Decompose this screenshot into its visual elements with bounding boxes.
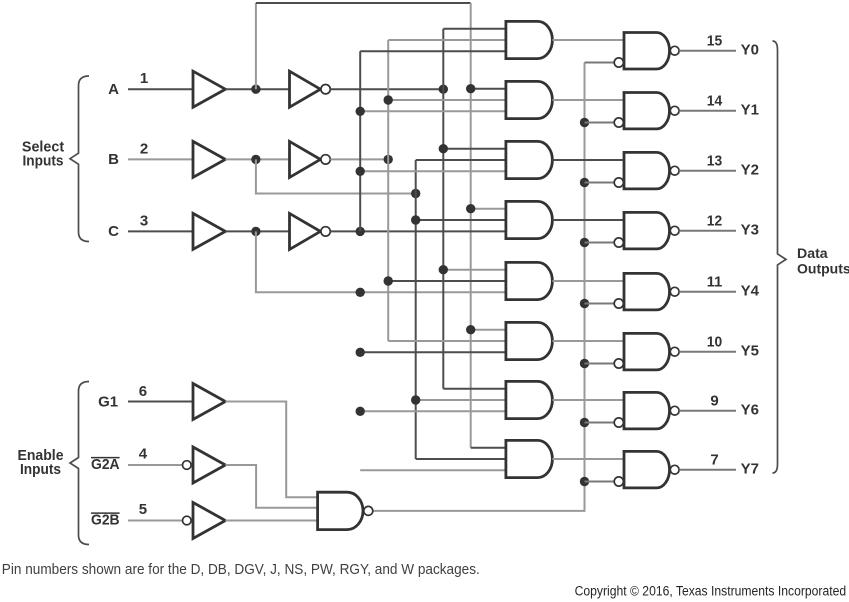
- svg-text:6: 6: [139, 383, 147, 400]
- wire input G1: [128, 401, 193, 403]
- inverter B second stage: [290, 141, 321, 177]
- svg-text:B: B: [108, 151, 119, 168]
- svg-text:7: 7: [710, 452, 718, 469]
- node B true join: [411, 189, 420, 198]
- wire B-bar vertical bus: [387, 40, 389, 341]
- wire Y2 AND mid input: [416, 159, 506, 161]
- wire Y3 output: [679, 230, 736, 232]
- buffer C first stage: [193, 213, 225, 249]
- wire A-bar row: [330, 88, 443, 90]
- wire Y2 AND bot input: [360, 170, 506, 172]
- wire Y0 output: [679, 50, 736, 52]
- and gate Y4: [506, 262, 552, 299]
- wire Y1 AND bot input: [360, 110, 506, 112]
- wire enable trunk vertical: [372, 63, 584, 511]
- wire A true up: [255, 3, 257, 89]
- svg-text:11: 11: [707, 274, 722, 291]
- svg-text:Y2: Y2: [741, 161, 759, 178]
- wire B-bar row: [330, 158, 388, 160]
- svg-text:15: 15: [707, 33, 722, 50]
- wire Y2 AND output: [552, 159, 624, 161]
- wire input G2A: [128, 464, 183, 466]
- and gate Y1: [506, 81, 553, 118]
- wire Y6 AND mid input: [416, 399, 506, 401]
- buffer B first stage: [193, 141, 225, 177]
- data outputs brace: [773, 41, 787, 473]
- wire G2B to enable NAND: [225, 520, 317, 522]
- nand gate Y0: [624, 33, 670, 70]
- node bus tap Y6 bot: [356, 407, 365, 416]
- node B-bar join: [384, 155, 393, 164]
- wire Y6 AND output: [552, 399, 624, 401]
- wire Y5 AND output: [552, 340, 624, 342]
- and gate Y7: [506, 440, 552, 477]
- and gate Y3: [506, 201, 552, 238]
- wire Y1 AND output: [552, 99, 624, 101]
- svg-text:G2B: G2B: [91, 511, 120, 528]
- svg-text:5: 5: [139, 501, 147, 518]
- node C junction: [251, 227, 260, 236]
- svg-text:Y5: Y5: [741, 342, 759, 359]
- wire Y5 AND bot input: [360, 351, 506, 353]
- wire enable tap Y3: [585, 242, 615, 244]
- node bus tap Y2 bot: [356, 167, 365, 176]
- inverter A second stage: [290, 71, 321, 107]
- svg-text:9: 9: [710, 393, 718, 410]
- wire Y0 AND top input: [443, 28, 506, 30]
- and gate Y5: [506, 322, 552, 359]
- wire Y6 AND bot input: [360, 410, 506, 412]
- inverter G2B: [193, 503, 225, 539]
- nand gate enable U2: [318, 492, 363, 529]
- nand gate Y5: [624, 333, 670, 370]
- wire Y4 output: [679, 291, 736, 293]
- svg-text:Data: Data: [797, 245, 828, 261]
- wire A buffer to junction: [225, 88, 289, 90]
- wire Y4 AND mid input: [388, 280, 506, 282]
- wire Y1 output: [679, 110, 736, 112]
- wire enable tap Y6: [585, 422, 615, 424]
- wire Y3 AND top input: [471, 208, 506, 210]
- inverter C second stage: [290, 213, 321, 249]
- buffer A first stage: [193, 71, 225, 107]
- and gate Y2: [506, 141, 552, 178]
- wire Y7 AND output: [552, 458, 624, 460]
- wire enable tap Y0: [585, 62, 615, 64]
- wire input G2B: [128, 520, 183, 522]
- nand gate Y6: [624, 392, 670, 429]
- select inputs brace: [70, 76, 89, 242]
- svg-text:G1: G1: [98, 393, 118, 410]
- wire input B: [128, 158, 193, 160]
- svg-text:Inputs: Inputs: [23, 153, 64, 170]
- wire B true vertical bus: [415, 160, 417, 459]
- buffer G1: [193, 384, 225, 420]
- wire Y0 AND mid input: [388, 39, 506, 41]
- svg-text:Y4: Y4: [741, 282, 760, 299]
- wire B buffer to junction: [225, 158, 289, 160]
- svg-text:Inputs: Inputs: [20, 461, 61, 478]
- node enable trunk Y5: [580, 359, 589, 368]
- wire Y3 AND output: [552, 219, 624, 221]
- node bus tap Y3 mid: [411, 215, 420, 224]
- nand gate Y2: [624, 152, 670, 189]
- nand gate Y4: [624, 273, 670, 310]
- wire Y5 AND mid input: [388, 340, 506, 342]
- svg-text:A: A: [108, 81, 119, 98]
- wire Y5 AND top input: [471, 329, 506, 331]
- svg-text:12: 12: [707, 213, 722, 230]
- wire A-bar vertical bus: [442, 29, 444, 389]
- node bus tap Y6 mid: [411, 395, 420, 404]
- wire Y0 AND output: [552, 39, 624, 41]
- svg-text:Y7: Y7: [741, 460, 759, 477]
- wire Y5 output: [679, 351, 736, 353]
- wire A true over the top: [256, 2, 471, 4]
- svg-text:G2A: G2A: [91, 456, 120, 473]
- svg-text:Copyright © 2016, Texas Instru: Copyright © 2016, Texas Instruments Inco…: [575, 584, 847, 599]
- wire input C: [128, 230, 193, 232]
- wire Y7 AND bot input: [360, 469, 506, 471]
- svg-text:2: 2: [140, 140, 148, 157]
- node bus tap Y4 mid: [384, 276, 393, 285]
- wire enable tap Y4: [585, 303, 615, 305]
- wire Y2 output: [679, 170, 736, 172]
- wire Y7 AND mid input: [416, 458, 506, 460]
- svg-text:Y3: Y3: [741, 221, 759, 238]
- node bus tap Y3 top: [466, 204, 475, 213]
- node C true join: [356, 288, 365, 297]
- node enable trunk Y2: [580, 178, 589, 187]
- svg-text:Y6: Y6: [741, 401, 759, 418]
- node enable trunk Y7: [580, 477, 589, 486]
- wire Y7 output: [679, 469, 736, 471]
- wire Y6 output: [679, 410, 736, 412]
- svg-text:4: 4: [139, 446, 148, 463]
- nand gate Y3: [624, 212, 670, 249]
- inverter G2A: [193, 447, 225, 483]
- wire Y3 AND mid input: [416, 219, 506, 221]
- wire C true drop to Y4 AND: [256, 231, 506, 292]
- svg-text:1: 1: [140, 70, 148, 87]
- node A junction: [251, 85, 260, 94]
- svg-text:Outputs: Outputs: [797, 260, 849, 276]
- wire input A: [128, 88, 193, 90]
- wire enable tap Y7: [585, 481, 615, 483]
- node bus tap Y2 top: [439, 144, 448, 153]
- svg-text:13: 13: [707, 153, 722, 170]
- node bus tap Y1 bot: [356, 107, 365, 116]
- node A-bar join: [439, 85, 448, 94]
- enable inputs brace: [70, 382, 89, 545]
- nand gate Y7: [624, 451, 670, 488]
- and gate Y6: [506, 381, 552, 418]
- wire C-bar row to Y3 AND: [330, 230, 506, 232]
- wire Y2 AND top input: [443, 148, 506, 150]
- wire B true drop: [256, 159, 416, 193]
- svg-text:Pin numbers shown are for the: Pin numbers shown are for the D, DB, DGV…: [2, 561, 480, 578]
- node enable trunk Y3: [580, 238, 589, 247]
- wire G2A to enable NAND: [225, 465, 317, 508]
- wire enable tap Y5: [585, 363, 615, 365]
- wire A true vertical bus: [470, 3, 472, 448]
- node bus tap Y1 mid: [384, 95, 393, 104]
- node bus tap Y1 top: [466, 84, 475, 93]
- overline G2B: [91, 512, 120, 514]
- svg-text:Y0: Y0: [741, 41, 759, 58]
- overline G2A: [91, 457, 120, 459]
- wire Y4 AND top input: [443, 269, 506, 271]
- wire G1 to enable NAND: [225, 402, 317, 498]
- wire enable tap Y1: [585, 122, 615, 124]
- svg-text:3: 3: [140, 212, 148, 229]
- wire C buffer to junction: [225, 230, 289, 232]
- svg-text:C: C: [108, 223, 119, 240]
- wire A true to Y7 AND: [471, 447, 506, 449]
- node B junction: [251, 155, 260, 164]
- node enable trunk Y6: [580, 418, 589, 427]
- node enable trunk Y1: [580, 118, 589, 127]
- svg-text:10: 10: [707, 334, 722, 351]
- and gate Y0: [506, 21, 552, 58]
- svg-text:14: 14: [707, 93, 723, 110]
- nand gate Y1: [624, 93, 669, 129]
- node bus tap Y5 bot: [356, 348, 365, 357]
- wire enable tap Y2: [585, 182, 615, 184]
- wire Y6 AND top input: [443, 388, 506, 390]
- wire Y0 AND bot input: [360, 50, 506, 52]
- svg-text:Y1: Y1: [741, 101, 759, 118]
- node enable trunk Y4: [580, 299, 589, 308]
- wire Y4 AND output: [552, 280, 624, 282]
- wire Y1 AND top input: [471, 88, 506, 90]
- wire C-bar vertical bus: [359, 51, 361, 231]
- wire Y1 AND mid input: [388, 99, 506, 101]
- node C-bar join: [356, 227, 365, 236]
- node bus tap Y4 top: [439, 265, 448, 274]
- node bus tap Y5 top: [466, 325, 475, 334]
